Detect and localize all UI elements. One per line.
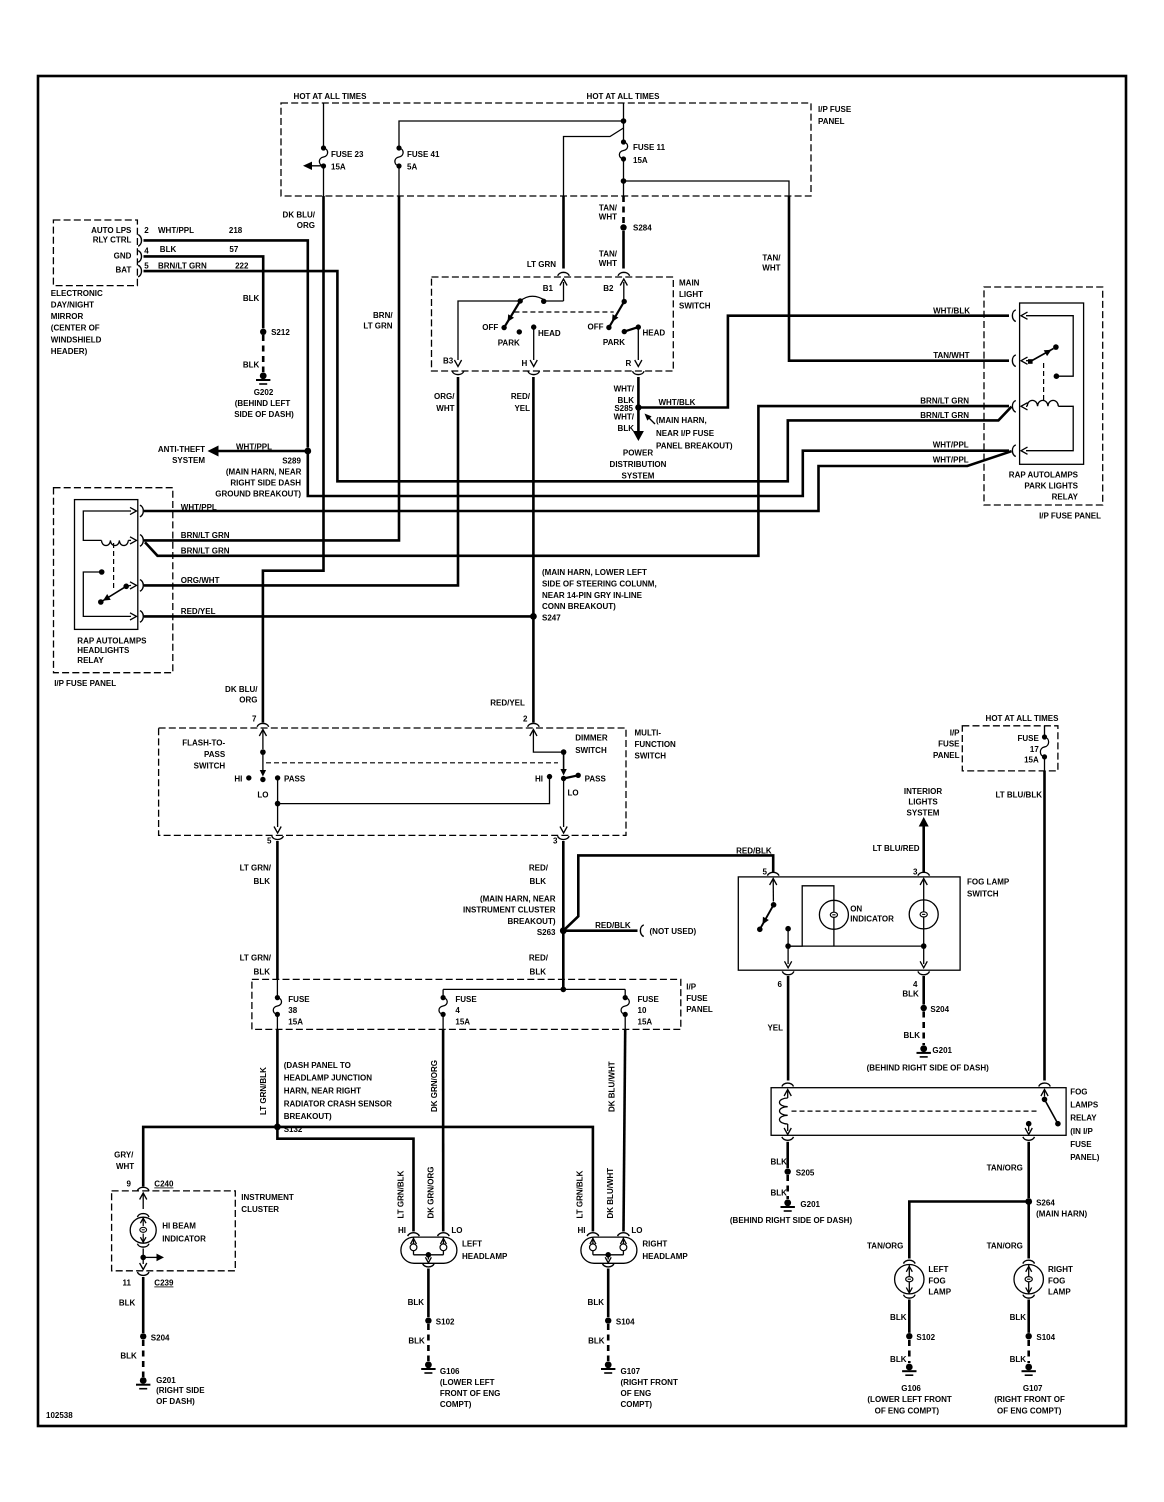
wire BLK dashed to G107 [588, 1324, 608, 1361]
svg-text:WHT: WHT [599, 259, 617, 268]
connector C239 [123, 1263, 174, 1288]
svg-text:RED/BLK: RED/BLK [736, 846, 772, 855]
svg-text:17: 17 [1030, 745, 1039, 754]
fog lamps relay box [771, 1088, 1100, 1163]
fog lamp switch box [738, 877, 1010, 970]
svg-text:LT BLU/BLK: LT BLU/BLK [995, 790, 1042, 799]
headlights relay inner box [75, 500, 138, 630]
svg-text:DK BLU/WHT: DK BLU/WHT [606, 1168, 615, 1219]
park relay pin 4 connector [1012, 445, 1027, 457]
mirror pin 2 connector [138, 226, 149, 246]
svg-text:15A: 15A [455, 1018, 470, 1027]
RAP autolamps park lights relay outer box [984, 287, 1103, 505]
svg-text:S204: S204 [930, 1005, 949, 1014]
svg-text:3: 3 [913, 867, 918, 876]
svg-text:(LOWER LEFT FRONT: (LOWER LEFT FRONT [867, 1395, 952, 1404]
svg-text:AUTO LPS: AUTO LPS [91, 226, 132, 235]
label 102538 [46, 1411, 73, 1420]
svg-text:(NOT USED): (NOT USED) [650, 927, 697, 936]
svg-text:BRN/LT GRN: BRN/LT GRN [158, 261, 207, 270]
svg-text:S104: S104 [1036, 1333, 1055, 1342]
label dimmer switch [575, 734, 608, 756]
svg-text:SWITCH: SWITCH [194, 762, 226, 771]
ground G106 (fog lamp) [867, 1364, 952, 1416]
svg-text:B2: B2 [603, 284, 614, 293]
fog switch pin 3 connector [913, 867, 929, 876]
svg-text:BLK: BLK [902, 989, 919, 998]
contact LO (dimmer) with strap to PASS [561, 775, 579, 797]
wire BLK cluster to S204 [119, 1277, 143, 1333]
svg-text:2: 2 [523, 715, 528, 724]
fog relay actuator dashed [792, 1110, 1038, 1112]
svg-text:RED/: RED/ [511, 392, 531, 401]
splice S102 (headlamp) [425, 1317, 455, 1326]
fog relay switch pin connector (top) [1039, 1083, 1051, 1086]
svg-text:FOG LAMP: FOG LAMP [967, 877, 1010, 886]
svg-text:SYSTEM: SYSTEM [907, 809, 940, 818]
svg-text:BLK: BLK [618, 424, 635, 433]
svg-text:LO: LO [451, 1226, 462, 1235]
svg-text:RADIATOR CRASH SENSOR: RADIATOR CRASH SENSOR [284, 1099, 392, 1108]
svg-text:BLK: BLK [243, 361, 260, 370]
MFS pin 5 connector [267, 836, 283, 846]
wire BLK right headlamp to S104 [588, 1269, 609, 1318]
svg-text:LT GRN/BLK: LT GRN/BLK [259, 1067, 268, 1115]
svg-text:(MAIN HARN, NEAR: (MAIN HARN, NEAR [226, 468, 302, 477]
svg-text:B3: B3 [443, 357, 454, 366]
svg-text:CLUSTER: CLUSTER [241, 1205, 279, 1214]
fog switch pin 4 connector [913, 971, 929, 988]
svg-text:15A: 15A [633, 156, 648, 165]
wire RED/BLK MFS pin 3 to S263 [529, 841, 563, 931]
wire LT GRN/BLK fuse 38 to S132 [259, 1014, 277, 1127]
svg-text:GND: GND [114, 252, 132, 261]
wire WHT/PPL to anti-theft system arrow [158, 442, 308, 465]
mechanical link dashed (MFS) [266, 762, 558, 764]
svg-text:FUSE: FUSE [638, 995, 660, 1004]
svg-text:YEL: YEL [514, 404, 530, 413]
svg-text:FOG: FOG [928, 1276, 945, 1285]
svg-text:HEAD: HEAD [538, 329, 561, 338]
park relay switch arm [1026, 344, 1059, 364]
svg-text:(BEHIND RIGHT SIDE OF DASH): (BEHIND RIGHT SIDE OF DASH) [730, 1216, 853, 1225]
svg-text:RIGHT SIDE DASH: RIGHT SIDE DASH [230, 479, 301, 488]
svg-text:LO: LO [257, 791, 268, 800]
svg-text:PASS: PASS [204, 750, 226, 759]
svg-text:ANTI-THEFT: ANTI-THEFT [158, 445, 205, 454]
wire BLK dashed to G107 (fog) [1010, 1340, 1029, 1364]
svg-text:POWER: POWER [623, 449, 653, 458]
svg-text:15A: 15A [288, 1018, 303, 1027]
svg-text:PANEL BREAKOUT): PANEL BREAKOUT) [656, 442, 733, 451]
wire BLK dashed to G201 (fog switch) [904, 1012, 924, 1046]
arrow to interior lights system [904, 787, 942, 827]
svg-text:SWITCH: SWITCH [967, 889, 999, 898]
svg-text:WHT/BLK: WHT/BLK [933, 307, 970, 316]
svg-text:DAY/NIGHT: DAY/NIGHT [51, 301, 94, 310]
fuse 11 15A [619, 139, 665, 165]
node junction below PASS [275, 801, 281, 807]
svg-text:I/P FUSE: I/P FUSE [818, 105, 852, 114]
svg-text:HI: HI [234, 775, 242, 784]
park relay actuator dashed [1043, 363, 1045, 403]
wire to MFS pin 5 [274, 804, 281, 833]
fog switch pin 6 connector [778, 971, 794, 988]
svg-text:WHT: WHT [116, 1162, 134, 1171]
svg-text:RAP AUTOLAMPS: RAP AUTOLAMPS [77, 636, 147, 645]
svg-text:WHT/PPL: WHT/PPL [181, 503, 217, 512]
left headlamp LO filament [440, 1237, 447, 1255]
pin H connector [528, 371, 540, 374]
right headlamp HI filament [590, 1237, 597, 1255]
svg-text:BRN/LT GRN: BRN/LT GRN [920, 411, 969, 420]
svg-text:FUSE: FUSE [1017, 734, 1039, 743]
svg-text:HEADLIGHTS: HEADLIGHTS [77, 646, 130, 655]
svg-text:HOT AT ALL TIMES: HOT AT ALL TIMES [587, 92, 661, 101]
wire WHT/PPL headlights relay pin 1 to park relay pin 4 [144, 451, 1012, 511]
svg-text:LT GRN/: LT GRN/ [240, 864, 272, 873]
splice S104 (fog lamp) [1026, 1333, 1056, 1342]
svg-text:LT GRN/BLK: LT GRN/BLK [576, 1170, 585, 1218]
contact OFF (B2) [588, 323, 612, 332]
flash-to-pass pivot and arm [260, 749, 266, 776]
svg-text:TAN/: TAN/ [762, 254, 781, 263]
svg-text:HEAD: HEAD [643, 329, 666, 338]
svg-text:R: R [626, 359, 632, 368]
svg-text:INSTRUMENT CLUSTER: INSTRUMENT CLUSTER [463, 906, 556, 915]
svg-text:TAN/: TAN/ [599, 204, 618, 213]
svg-text:PARK LIGHTS: PARK LIGHTS [1024, 482, 1078, 491]
svg-text:PANEL: PANEL [686, 1005, 713, 1014]
svg-text:DK GRN/ORG: DK GRN/ORG [427, 1167, 436, 1219]
MFS pin 7 entry arrow [259, 730, 266, 750]
svg-text:PASS: PASS [284, 775, 306, 784]
svg-text:DK GRN/ORG: DK GRN/ORG [430, 1060, 439, 1112]
wire BRN/LT GRN headlights relay coil to park relay pin 3 [145, 396, 1009, 556]
contact HI (dimmer) [535, 774, 552, 784]
svg-text:10: 10 [638, 1006, 647, 1015]
svg-text:ELECTRONIC: ELECTRONIC [51, 289, 103, 298]
svg-text:RAP AUTOLAMPS: RAP AUTOLAMPS [1009, 471, 1079, 480]
svg-text:ON: ON [850, 904, 862, 913]
svg-text:RELAY: RELAY [77, 656, 104, 665]
pin B2 entry arrow [620, 279, 627, 304]
wire LT BLU/RED to fog lamp switch pin 3 [873, 826, 924, 873]
svg-text:9: 9 [127, 1180, 132, 1189]
svg-text:DIMMER: DIMMER [575, 734, 608, 743]
left headlamp body [401, 1237, 508, 1263]
svg-text:HI: HI [398, 1226, 406, 1235]
I/P fuse panel (fuse 17) box [933, 726, 1058, 771]
svg-text:RLY CTRL: RLY CTRL [93, 236, 132, 245]
splice S102 (fog lamp) [906, 1333, 936, 1342]
MFS pin 3 connector [553, 836, 569, 846]
svg-text:S102: S102 [916, 1333, 935, 1342]
svg-text:BLK: BLK [890, 1355, 907, 1364]
svg-text:4: 4 [144, 246, 149, 255]
svg-text:G107: G107 [621, 1367, 641, 1376]
svg-text:BLK: BLK [408, 1336, 425, 1345]
svg-text:YEL: YEL [767, 1024, 783, 1033]
svg-text:SIDE OF STEERING COLUNM,: SIDE OF STEERING COLUNM, [542, 580, 657, 589]
svg-text:(MAIN HARN,: (MAIN HARN, [656, 416, 707, 425]
park relay inner box [1020, 303, 1084, 464]
fog relay coil exit connector (bottom) [782, 1137, 794, 1140]
svg-text:HEADLAMP JUNCTION: HEADLAMP JUNCTION [284, 1074, 373, 1083]
svg-text:I/P: I/P [686, 982, 696, 991]
svg-text:LAMP: LAMP [1048, 1288, 1071, 1297]
svg-text:SWITCH: SWITCH [575, 746, 607, 755]
svg-text:RIGHT: RIGHT [1048, 1265, 1073, 1274]
svg-text:RIGHT: RIGHT [642, 1239, 667, 1248]
svg-text:WHT/: WHT/ [614, 413, 635, 422]
contact HI (flash-to-pass) [234, 775, 251, 784]
wire BLK left headlamp to S102 [408, 1269, 429, 1318]
svg-text:PANEL): PANEL) [1070, 1153, 1100, 1162]
headlights relay pin 3 connector [130, 576, 220, 591]
wire BLK right fog lamp to S104 [1010, 1300, 1029, 1333]
splice S204 (cluster) [140, 1333, 170, 1342]
wire TAN/WHT dashed segment [599, 196, 624, 224]
svg-text:SWITCH: SWITCH [679, 302, 711, 311]
svg-text:NEAR I/P FUSE: NEAR I/P FUSE [656, 429, 715, 438]
multi-function switch box [159, 728, 676, 835]
svg-text:BRN/LT GRN: BRN/LT GRN [181, 531, 230, 540]
svg-text:OFF: OFF [588, 323, 604, 332]
svg-text:BLK: BLK [119, 1299, 136, 1308]
svg-text:BLK: BLK [770, 1158, 787, 1167]
wire B1 wiper to B3 output [443, 301, 520, 367]
wire BLK dashed to G106 (fog) [890, 1340, 909, 1364]
ON indicator bulb (left) [819, 900, 894, 929]
svg-text:G202: G202 [254, 388, 274, 397]
svg-text:FOG: FOG [1070, 1088, 1087, 1097]
svg-text:G106: G106 [901, 1384, 921, 1393]
wire RED/BLK stub (NOT USED) [563, 921, 696, 936]
svg-text:(MAIN HARN, NEAR: (MAIN HARN, NEAR [480, 894, 556, 903]
splice S285 [614, 404, 641, 413]
svg-text:BRN/LT GRN: BRN/LT GRN [181, 546, 230, 555]
wire BLK left fog lamp to S102 [890, 1300, 909, 1333]
wire WHT/BLK R output to S285 [614, 377, 639, 432]
svg-text:BLK: BLK [1010, 1313, 1027, 1322]
park relay pin 3 connector [1012, 401, 1027, 413]
contact HEAD (B2) with strap [624, 324, 665, 337]
svg-text:S285: S285 [614, 404, 633, 413]
wire BLK fog relay to S205 [770, 1142, 787, 1168]
svg-text:BAT: BAT [116, 266, 132, 275]
svg-text:HEADLAMP: HEADLAMP [642, 1252, 688, 1261]
svg-text:BLK: BLK [588, 1298, 605, 1307]
wire LT BLU/BLK fuse 17 to fog lamps relay [995, 771, 1044, 1081]
svg-text:MIRROR: MIRROR [51, 312, 84, 321]
svg-text:OF DASH): OF DASH) [156, 1397, 195, 1406]
svg-text:FUSE 23: FUSE 23 [331, 150, 364, 159]
MFS pin 7 connector [252, 715, 269, 727]
svg-text:HI BEAM: HI BEAM [162, 1221, 196, 1230]
ground G107 (headlamp) [601, 1361, 678, 1409]
svg-text:LT GRN: LT GRN [527, 260, 556, 269]
svg-text:S247: S247 [542, 614, 561, 623]
svg-text:FUSE: FUSE [288, 995, 310, 1004]
svg-text:(BEHIND RIGHT SIDE OF DASH): (BEHIND RIGHT SIDE OF DASH) [867, 1064, 990, 1073]
MFS pin 2 entry arrow [530, 730, 564, 753]
svg-text:BLK: BLK [904, 1031, 921, 1040]
node junction below fuse 11 [621, 159, 627, 196]
svg-text:S212: S212 [271, 328, 290, 337]
svg-text:GRY/: GRY/ [114, 1150, 134, 1159]
wire ORG/WHT B3 to headlights relay pin 3 [144, 377, 458, 585]
svg-text:LT GRN/BLK: LT GRN/BLK [396, 1170, 405, 1218]
svg-text:FUSE: FUSE [1070, 1140, 1092, 1149]
wire BLK 57 mirror to S212 [144, 245, 264, 328]
contact HEAD (B1) [531, 324, 561, 338]
svg-text:FUSE 11: FUSE 11 [633, 143, 666, 152]
svg-text:TAN/ORG: TAN/ORG [987, 1241, 1023, 1250]
wire DK BLU/ORG fuse 23 to MFS pin 7 [263, 196, 324, 723]
contact LO (flash-to-pass) [257, 777, 268, 800]
contact PASS (dimmer) [576, 773, 607, 784]
svg-text:LAMP: LAMP [928, 1288, 951, 1297]
fog switch pin 5 entry arrow and arm [757, 879, 777, 933]
wire BRN/LT GRN fuse 41 to headlights relay coil [144, 196, 399, 540]
svg-text:OF ENG COMPT): OF ENG COMPT) [875, 1406, 940, 1415]
svg-text:G201: G201 [156, 1376, 176, 1385]
main light switch box [432, 277, 711, 371]
svg-text:S102: S102 [436, 1318, 455, 1327]
wire LO to MFS pin 3 [560, 779, 567, 834]
svg-text:INDICATOR: INDICATOR [850, 914, 894, 923]
wire RED/YEL headlights relay pin 4 to S247 [144, 615, 533, 618]
electronic day/night mirror box [51, 220, 138, 356]
svg-text:5: 5 [267, 837, 272, 846]
right fog lamp [1014, 1260, 1073, 1298]
svg-text:FLASH-TO-: FLASH-TO- [182, 739, 225, 748]
svg-text:CONN BREAKOUT): CONN BREAKOUT) [542, 602, 616, 611]
svg-text:11: 11 [123, 1279, 132, 1288]
svg-text:S104: S104 [616, 1318, 635, 1327]
splice S289 with note [215, 448, 311, 499]
svg-text:MULTI-: MULTI- [635, 729, 662, 738]
svg-text:LT GRN: LT GRN [363, 322, 392, 331]
svg-text:RED/: RED/ [529, 864, 549, 873]
fuse 41 5A [395, 145, 440, 171]
svg-text:INTERIOR: INTERIOR [904, 787, 942, 796]
svg-text:LEFT: LEFT [462, 1239, 482, 1248]
svg-text:BLK: BLK [408, 1298, 425, 1307]
svg-text:PARK: PARK [603, 338, 625, 347]
svg-text:RELAY: RELAY [1070, 1114, 1097, 1123]
fog switch indicator feed wiring [788, 886, 834, 946]
svg-text:FOG: FOG [1048, 1276, 1065, 1285]
wire BLK fog switch pin 4 to S204 [902, 976, 923, 1005]
fuse 17 15A [1017, 726, 1048, 771]
pin B3 connector [452, 371, 464, 374]
RAP autolamps headlights relay outer box [54, 488, 173, 673]
svg-text:PARK: PARK [498, 338, 520, 347]
park relay pin 2 connector [1012, 355, 1027, 367]
pin R connector [633, 371, 645, 374]
svg-text:(RIGHT SIDE: (RIGHT SIDE [156, 1386, 205, 1395]
I/P fuse panel (top) box [281, 103, 852, 196]
svg-text:MAIN: MAIN [679, 279, 700, 288]
svg-text:ORG/WHT: ORG/WHT [181, 576, 220, 585]
fog relay switch arm [1041, 1090, 1061, 1127]
svg-text:BLK: BLK [120, 1351, 137, 1360]
wire BLK dashed S204 to G201 [120, 1340, 143, 1377]
fog relay output connector (bottom) [1023, 1137, 1035, 1140]
right headlamp LO filament [620, 1237, 627, 1255]
cluster entry arrow [140, 1193, 147, 1209]
right headlamp common bus [593, 1252, 624, 1267]
svg-text:DK BLU/WHT: DK BLU/WHT [608, 1061, 617, 1112]
svg-text:COMPT): COMPT) [621, 1400, 653, 1409]
label HOT AT ALL TIMES (fuse 17) [986, 714, 1060, 723]
splice S284 [620, 224, 652, 233]
svg-text:FUSE: FUSE [938, 740, 960, 749]
svg-text:INDICATOR: INDICATOR [162, 1234, 206, 1243]
svg-text:S284: S284 [633, 224, 652, 233]
splice S247 with note [530, 568, 657, 623]
wire HEAD to R output [626, 327, 642, 368]
ground G201 (right side of dash) [136, 1376, 205, 1406]
ground G202 [234, 372, 294, 418]
svg-text:NEAR 14-PIN GRY IN-LINE: NEAR 14-PIN GRY IN-LINE [542, 591, 643, 600]
note S285 main harn with pointer arrow [645, 414, 733, 451]
arrow stub left of fuse 23 [303, 162, 324, 170]
I/P fuse panel (lower) box [252, 979, 713, 1029]
wire TAN/WHT branch inside panel [624, 181, 790, 196]
svg-text:HARN, NEAR RIGHT: HARN, NEAR RIGHT [284, 1087, 361, 1096]
wire feed to fuse 11 [623, 103, 625, 142]
svg-text:222: 222 [235, 261, 249, 270]
svg-text:57: 57 [229, 245, 238, 254]
svg-text:38: 38 [288, 1006, 297, 1015]
left headlamp connectors HI LO [398, 1226, 463, 1236]
svg-text:BLK: BLK [770, 1188, 787, 1197]
svg-text:WHT: WHT [762, 264, 780, 273]
fuse 4 15A [439, 989, 477, 1026]
pin B1 entry arrow [560, 279, 567, 301]
svg-text:HEADER): HEADER) [51, 347, 88, 356]
wire RED/YEL H output down to MFS pin 2 [490, 377, 533, 723]
svg-text:SYSTEM: SYSTEM [172, 456, 205, 465]
svg-text:OF ENG COMPT): OF ENG COMPT) [997, 1406, 1062, 1415]
svg-text:S263: S263 [537, 928, 556, 937]
svg-text:LAMPS: LAMPS [1070, 1101, 1099, 1110]
svg-text:(IN I/P: (IN I/P [1070, 1127, 1093, 1136]
switch pole B1 arc [518, 296, 564, 304]
headlights relay actuator dashed [113, 543, 115, 588]
svg-text:(LOWER LEFT: (LOWER LEFT [440, 1378, 495, 1387]
svg-text:LIGHTS: LIGHTS [908, 798, 938, 807]
svg-text:218: 218 [229, 226, 243, 235]
svg-text:BLK: BLK [588, 1336, 605, 1345]
wire DK GRN/ORG fuse 4 to left headlamp LO [427, 1014, 444, 1231]
wire LT GRN/BLK S132 to right headlamp HI [277, 1127, 593, 1232]
svg-text:PASS: PASS [585, 775, 607, 784]
svg-text:TAN/ORG: TAN/ORG [867, 1241, 903, 1250]
splice S205 [785, 1168, 815, 1177]
fog switch pin 5 connector [763, 867, 779, 876]
svg-text:WHT/PPL: WHT/PPL [933, 441, 969, 450]
wire left bulb to bus [833, 929, 835, 946]
svg-text:BLK: BLK [254, 877, 271, 886]
svg-text:GROUND BREAKOUT): GROUND BREAKOUT) [215, 490, 301, 499]
node junction fuse feed [443, 987, 625, 993]
svg-text:S289: S289 [282, 456, 301, 465]
svg-text:WHT: WHT [436, 404, 454, 413]
